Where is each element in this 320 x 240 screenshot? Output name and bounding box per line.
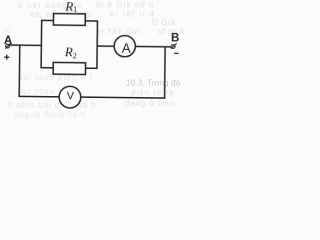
svg-text:10.3. Trong đọ: 10.3. Trong đọ (126, 79, 181, 88)
wire: bottom loop left segment to voltmeter (18, 95, 59, 97)
wire: right rail to ammeter (97, 45, 114, 47)
wire: terminal A to left rail (10, 44, 42, 46)
wire: right voltmeter riser (vertical) (164, 47, 167, 99)
wire: bottom branch left stub to R2 (40, 67, 53, 69)
svg-text:V: V (67, 90, 75, 102)
svg-text:1: 1 (73, 5, 77, 14)
svg-text:pò: pò (2, 26, 11, 35)
wire: right rail of parallel branches (96, 21, 99, 68)
resistor R1 (53, 14, 85, 26)
svg-text:Đ Gia: Đ Gia (152, 18, 175, 27)
svg-text:ở phía trai dòng và b: ở phía trai dòng và b (8, 101, 96, 110)
faint page bleed-through text (2, 1, 185, 120)
polarity minus at B (174, 52, 178, 54)
polarity plus at A (4, 55, 9, 60)
svg-text:điện tở là: điện tở là (131, 89, 174, 98)
ammeter U1 (114, 35, 135, 56)
resistor R2 (53, 62, 85, 74)
svg-text:R: R (64, 44, 73, 59)
wire: left voltmeter drop (vertical) (18, 45, 21, 96)
wire: left rail of parallel branches (40, 20, 43, 67)
wire: bottom branch right stub from R2 (85, 67, 97, 69)
svg-text:A: A (4, 35, 12, 47)
wire: ammeter to terminal B (135, 45, 171, 47)
svg-text:bị ở Gia sử b: bị ở Gia sử b (96, 1, 154, 10)
svg-text:òng là đóng vạ b: òng là đóng vạ b (14, 110, 86, 119)
wire: top branch right stub from R1 (85, 20, 98, 22)
svg-text:đang ở tren: đang ở tren (125, 99, 175, 108)
terminal A symbol (5, 43, 11, 49)
svg-text:A: A (122, 41, 131, 56)
wire: top branch left stub to R1 (41, 19, 54, 21)
svg-text:H TAY Gìn: H TAY Gìn (98, 28, 140, 37)
svg-text:bị tật lị đ: bị tật lị đ (110, 10, 155, 19)
svg-text:B: B (171, 33, 179, 45)
svg-text:R: R (64, 0, 73, 14)
voltmeter U2 (59, 86, 81, 108)
terminal B symbol (171, 43, 177, 49)
svg-text:2: 2 (73, 51, 77, 60)
wire: bottom loop right segment from voltmeter (81, 96, 166, 99)
